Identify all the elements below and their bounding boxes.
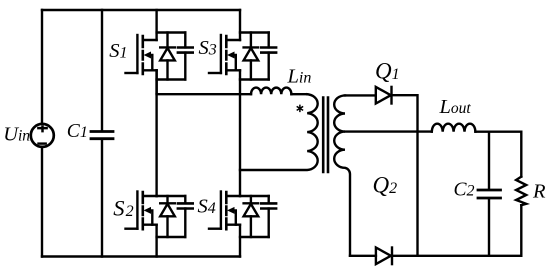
svg-text:S3: S3	[199, 37, 217, 59]
svg-text:R: R	[532, 181, 546, 203]
capacitor (snubber of S2)	[157, 196, 193, 237]
wire Lin to transformer	[291, 93, 307, 95]
svg-text:Lout: Lout	[439, 96, 472, 118]
capacitor C2	[478, 132, 501, 256]
svg-text:S4: S4	[198, 195, 216, 217]
diode D3 (body of S3)	[240, 33, 269, 80]
svg-text:S1: S1	[109, 40, 127, 62]
wire bottom rail	[42, 255, 240, 257]
diode D4 (body of S4)	[240, 196, 269, 237]
transistor S4 (MOSFET)	[209, 192, 240, 257]
diode Q2	[376, 248, 392, 265]
transformer T1 secondary	[334, 95, 350, 255]
wire top rail	[42, 9, 240, 11]
svg-text:Uin: Uin	[3, 124, 30, 146]
wire left rail	[41, 10, 43, 257]
wire node B leg (S3 source to S4 drain)	[239, 70, 241, 196]
resistor R	[516, 132, 526, 256]
svg-text:Q1: Q1	[375, 59, 400, 84]
wire node A leg (S1 source to S2 drain)	[155, 70, 157, 196]
capacitor (snubber of S3)	[240, 33, 276, 80]
transformer core	[323, 98, 328, 173]
wire secondary bottom rail	[350, 255, 376, 257]
transistor S1 (MOSFET)	[126, 10, 157, 94]
diode Q1	[376, 87, 392, 104]
svg-text:S2: S2	[113, 196, 133, 221]
capacitor C1	[91, 10, 113, 257]
inductor Lin	[251, 88, 291, 95]
diode D1 (body of S1)	[157, 33, 186, 80]
wire node A rail	[157, 93, 251, 95]
transformer T1 primary	[240, 94, 318, 170]
svg-text:C2: C2	[454, 179, 475, 200]
svg-text:Lin: Lin	[287, 66, 312, 88]
capacitor (snubber of S1)	[157, 33, 193, 80]
wire center tap rail	[345, 130, 432, 132]
wire secondary top to Q1	[345, 94, 376, 96]
transistor S2 (MOSFET)	[126, 192, 157, 257]
node dot marker (asterisk)	[297, 105, 302, 111]
capacitor (snubber of S4)	[240, 196, 276, 237]
wire Lout to R	[475, 130, 521, 132]
wire Q2 cathode to output	[392, 255, 521, 257]
diode D2 (body of S2)	[157, 196, 186, 237]
wire Q1 cathode down	[392, 95, 418, 256]
svg-text:Q2: Q2	[373, 173, 398, 198]
transistor S3 (MOSFET)	[209, 10, 240, 74]
svg-text:C1: C1	[67, 121, 88, 142]
source U_in	[31, 124, 54, 147]
inductor Lout	[432, 124, 476, 132]
